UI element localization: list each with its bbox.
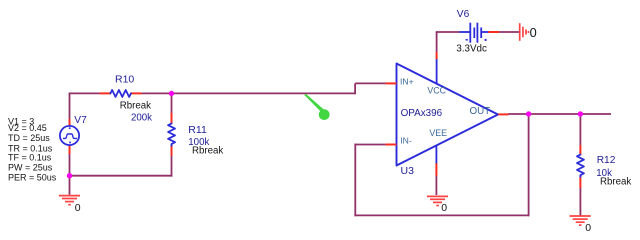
svg-text:VEE: VEE — [429, 128, 447, 138]
svg-text:200k: 200k — [131, 112, 152, 123]
wire R11 top vertical — [171, 93, 173, 114]
wire output horizontal — [508, 113, 611, 115]
wire feedback bottom horizontal — [354, 214, 529, 216]
svg-text:V2 = 0.45: V2 = 0.45 — [8, 123, 47, 133]
svg-text:Rbreak: Rbreak — [120, 100, 151, 111]
junction at OUT feedback node — [526, 111, 531, 116]
wire riser up — [354, 83, 356, 94]
junction at R10/R11 node — [169, 91, 174, 96]
wire feedback left vertical — [354, 144, 356, 217]
wire feedback right vertical — [528, 114, 530, 216]
wire V7 bottom to ground — [69, 154, 71, 195]
wire R10 to riser — [141, 92, 356, 94]
svg-text:PW = 25us: PW = 25us — [8, 163, 53, 173]
wire battery to ground 0 — [499, 31, 519, 33]
svg-text:V7: V7 — [74, 115, 87, 126]
wire VEE to ground — [435, 175, 437, 195]
wire VCC vertical — [436, 32, 438, 52]
wire riser to IN+ — [355, 82, 386, 84]
svg-text:Rbreak: Rbreak — [600, 177, 631, 188]
svg-text:VCC: VCC — [427, 85, 446, 95]
svg-text:OUT: OUT — [470, 106, 491, 117]
resistor R12 — [577, 146, 584, 187]
svg-text:Rbreak: Rbreak — [192, 146, 223, 157]
wire R11 bottom vertical — [171, 155, 173, 177]
pin VEE stub — [435, 163, 437, 176]
svg-text:IN-: IN- — [400, 136, 412, 146]
svg-text:0: 0 — [75, 202, 81, 214]
junction at R12 node — [578, 111, 583, 116]
ground 0 below R12 — [570, 216, 591, 225]
svg-text:V6: V6 — [457, 9, 470, 20]
svg-text:OPAx396: OPAx396 — [401, 108, 443, 119]
ground 0 below VEE — [427, 196, 448, 205]
pin OUT stub — [498, 113, 508, 115]
label V7 pulse parameters — [8, 116, 57, 182]
junction at V7 bottom node — [67, 173, 72, 178]
resistor R10 — [100, 90, 140, 97]
wire VCC corner to battery — [436, 31, 460, 33]
wire R12 bottom vertical — [579, 187, 581, 216]
svg-text:0: 0 — [530, 25, 537, 40]
voltage probe marker (green) — [304, 94, 329, 120]
svg-text:IN+: IN+ — [400, 77, 414, 87]
wire V7 top vertical — [69, 93, 71, 119]
ground 0 below V7 — [59, 196, 80, 205]
svg-text:TF = 0.1us: TF = 0.1us — [8, 153, 52, 163]
svg-text:PER = 50us: PER = 50us — [8, 173, 57, 183]
ground 0 right of V6 (rotated) — [520, 23, 529, 41]
pin V6 right stub — [488, 31, 499, 33]
svg-text:0: 0 — [441, 202, 447, 214]
svg-text:R11: R11 — [188, 124, 207, 136]
svg-text:U3: U3 — [401, 165, 415, 177]
pin IN+ stub — [386, 82, 397, 84]
svg-text:R12: R12 — [597, 155, 616, 166]
pin IN- stub — [386, 144, 397, 146]
dc source V6 (battery) — [459, 23, 488, 43]
svg-text:TD = 25us: TD = 25us — [8, 133, 50, 143]
wire R12 top vertical — [579, 114, 581, 147]
op-amp U3 OPAx396 — [397, 59, 499, 166]
svg-text:R10: R10 — [115, 74, 134, 86]
wire bottom-left horizontal — [70, 175, 173, 177]
svg-text:3.3Vdc: 3.3Vdc — [456, 44, 487, 55]
resistor R11 — [168, 114, 175, 155]
pin VCC stub — [436, 52, 438, 59]
voltage source V7 (VPULSE) — [60, 119, 79, 154]
wire V7 top horizontal to R10 — [69, 92, 101, 94]
wire IN- horizontal — [354, 144, 385, 146]
svg-text:0: 0 — [585, 222, 591, 234]
